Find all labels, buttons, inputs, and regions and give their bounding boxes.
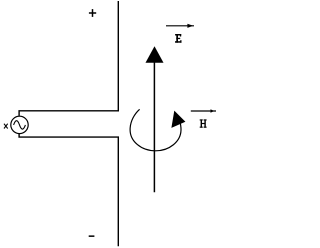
node + (plus polarity label) [89, 9, 96, 17]
label x (source name) [4, 124, 8, 129]
vector arrow over H [191, 110, 216, 112]
arrow E-field head [146, 46, 164, 62]
source V1 (AC generator circle) [11, 116, 28, 133]
wire (top feed line and upper dipole arm) [19, 1, 118, 116]
label H [200, 119, 207, 127]
arc H-field arrowhead [171, 111, 185, 128]
arrow E-field (large vertical arrow shaft) [153, 62, 155, 192]
wire (bottom feed line and lower dipole arm) [19, 134, 118, 247]
node - (minus polarity label) [89, 235, 95, 237]
arc H-field circulation [130, 109, 181, 151]
source V1 sine wave [14, 121, 26, 129]
label E [175, 34, 182, 43]
vector arrow over E [166, 25, 194, 27]
